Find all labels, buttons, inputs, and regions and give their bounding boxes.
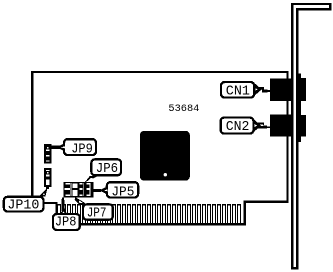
bracket [292, 4, 330, 268]
svg-text:JP5: JP5 [111, 185, 134, 200]
callout JP10 [4, 187, 48, 213]
edge connector fingers [57, 204, 241, 223]
svg-text:JP8: JP8 [55, 216, 77, 231]
jumper block JP5/6/7/8 [64, 182, 94, 197]
header JP9 component [44, 144, 52, 163]
svg-text:CN1: CN1 [226, 84, 250, 99]
leader line CN2 [258, 123, 264, 125]
leader line JP5 [94, 189, 102, 192]
chip U1 (VGA controller) [140, 131, 190, 181]
callout JP7 [75, 197, 113, 221]
connector CN2 [270, 115, 294, 137]
svg-text:JP10: JP10 [7, 199, 39, 214]
leader line JP9 [51, 145, 60, 149]
connector CN1 [270, 79, 294, 101]
svg-text:JP9: JP9 [71, 142, 93, 157]
chip pin-1 dot [164, 173, 167, 176]
svg-text:JP6: JP6 [96, 162, 118, 177]
board outline [32, 72, 287, 224]
svg-text:JP7: JP7 [87, 206, 107, 221]
callout JP5 [99, 182, 138, 200]
svg-text:CN2: CN2 [226, 120, 250, 135]
leader line JP10 [46, 187, 49, 189]
callout JP6 [85, 159, 121, 182]
connector CN2 tab [297, 115, 306, 136]
connector CN1 tab [297, 78, 306, 101]
callout JP9 [56, 139, 96, 157]
header JP10 component [44, 168, 52, 187]
leader line JP8 [62, 197, 65, 211]
callout CN1 [221, 82, 262, 99]
connector tab rail [297, 74, 301, 143]
svg-text:53684: 53684 [168, 103, 199, 115]
callout JP8 [53, 209, 80, 231]
leader line CN1 [258, 87, 264, 89]
callout CN2 [221, 118, 261, 136]
